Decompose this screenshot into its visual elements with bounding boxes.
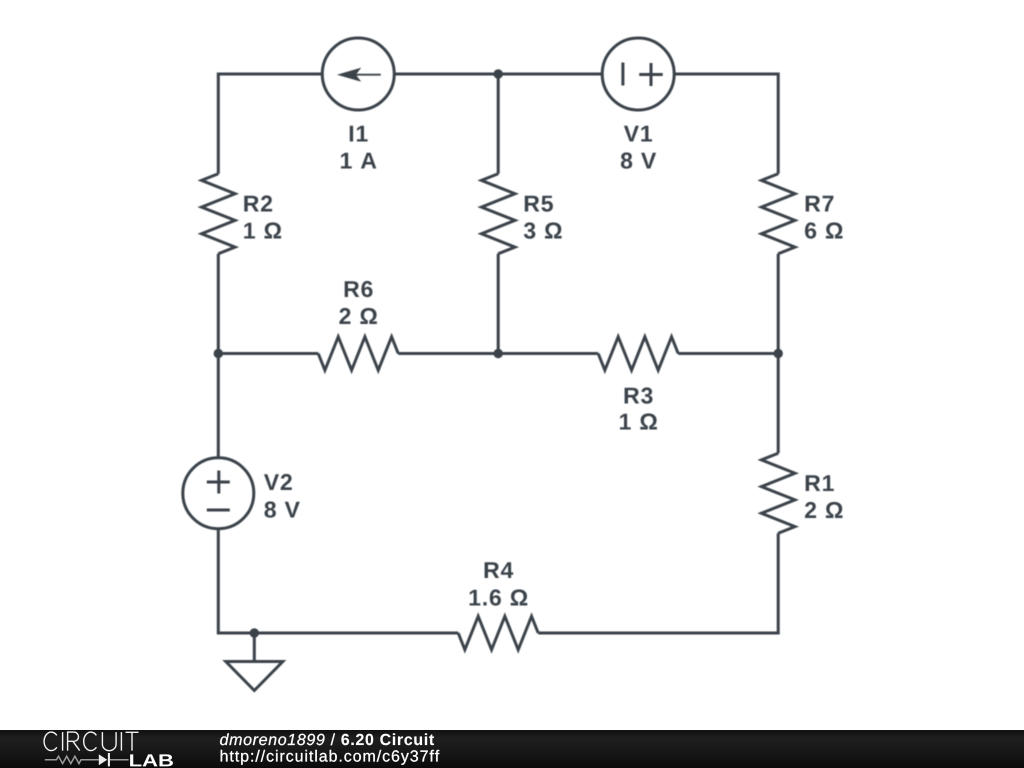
label R1 <box>806 475 834 491</box>
value label 1 A <box>341 153 376 169</box>
wire top-right corner: V1 to R7 <box>674 74 778 174</box>
label R5 <box>525 196 553 212</box>
logo letter U <box>102 732 116 751</box>
footer slash separator <box>331 733 335 745</box>
footer url <box>221 750 440 765</box>
wire R7 to node D <box>777 254 780 354</box>
label R4 <box>485 562 514 578</box>
wire V2 to bottom rail to R4 <box>218 529 458 633</box>
label V1 <box>624 126 652 142</box>
value label 6 ohm <box>805 222 843 238</box>
wire node B to R6 <box>218 352 318 355</box>
value label 8 V <box>265 501 300 517</box>
label R6 <box>345 281 373 297</box>
wire I1 to V1 through node A <box>394 73 602 76</box>
resistor R2 <box>202 174 236 254</box>
logo letter R <box>68 732 80 751</box>
footer bar <box>0 730 1024 768</box>
label R2 <box>244 195 272 211</box>
label I1 <box>350 126 368 142</box>
ground <box>226 633 283 691</box>
logo diode cathode bar <box>108 753 110 766</box>
wire R6 to R3 through node C <box>398 352 598 355</box>
node B junction mid left <box>214 349 223 358</box>
wire R3 to node D <box>678 352 778 355</box>
wire R5 to node C <box>497 254 500 354</box>
label R3 <box>625 387 653 403</box>
resistor R3 <box>598 337 678 371</box>
value label 1 ohm <box>620 413 657 429</box>
voltage source V2 <box>183 458 254 529</box>
wire node A down to R5 <box>497 74 500 174</box>
footer circuit title 6.20 Circuit <box>341 733 434 745</box>
resistor R6 <box>318 337 398 371</box>
logo wire diode to LAB <box>110 759 129 761</box>
wire node D down to R1 <box>777 354 780 454</box>
current source I1 <box>322 38 394 110</box>
node E ground junction <box>250 628 259 637</box>
logo letter C <box>44 732 57 751</box>
resistor R1 <box>761 453 795 533</box>
logo letter T <box>126 732 139 750</box>
value label 3 ohm <box>524 222 562 238</box>
logo diode triangle <box>99 754 107 765</box>
value label 1.6 ohm <box>470 589 528 605</box>
footer username dmoreno1899 <box>220 733 324 745</box>
label R7 <box>806 196 834 212</box>
wire R4 to bottom-right corner up to R1 <box>538 533 778 633</box>
voltage source V1 <box>602 38 674 110</box>
label V2 <box>264 474 292 490</box>
value label 2 ohm <box>339 308 377 324</box>
value label 1 ohm <box>244 222 281 238</box>
node D junction mid right <box>774 349 783 358</box>
logo wordmark LAB <box>130 754 173 766</box>
value label 8 V <box>621 152 656 168</box>
wire top-left corner: left rail to I1 <box>218 74 322 174</box>
node A junction top middle <box>494 69 503 78</box>
logo letter I <box>62 732 64 751</box>
resistor R4 <box>458 616 538 650</box>
node C junction mid middle <box>494 349 503 358</box>
logo letter C2 <box>84 732 97 751</box>
logo resistor squiggle wire <box>45 756 99 763</box>
value label 2 ohm <box>805 502 843 518</box>
CircuitLab logo and footer text <box>0 729 1024 768</box>
resistor R5 <box>481 174 515 254</box>
logo letter I2 <box>120 732 122 751</box>
resistor R7 <box>761 174 795 254</box>
wire R2 to V2 through node B <box>217 254 220 458</box>
